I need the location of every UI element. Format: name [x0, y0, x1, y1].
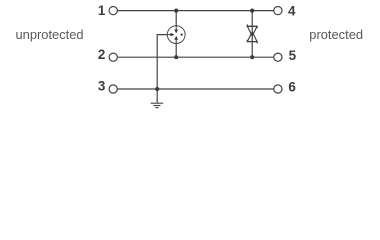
wire TVS vertical [251, 11, 253, 58]
wire row 1 (pin1 to pin4) [117, 10, 273, 12]
svg-text:1: 1 [98, 3, 106, 18]
wire side electrode to ground (L bend) [157, 35, 167, 103]
suppressor diode upper triangle [247, 26, 257, 36]
gas discharge tube body [167, 26, 185, 44]
junction row1/TVS [250, 9, 254, 13]
suppressor diode top zener bar [247, 24, 257, 28]
svg-text:4: 4 [288, 3, 296, 18]
junction row1/GDT [174, 9, 178, 13]
junction row2/TVS [250, 55, 254, 59]
wire GDT top (row1 to arrester) [175, 11, 177, 26]
suppressor diode bottom zener bar [247, 40, 257, 44]
svg-text:6: 6 [288, 80, 295, 95]
wire row 3 (pin3 to pin6) [117, 88, 273, 90]
junction row3/ground wire [155, 87, 159, 91]
wire GDT bottom (arrester to row2) [175, 43, 177, 57]
terminal circle pin 3 [109, 85, 117, 93]
svg-text:2: 2 [98, 47, 105, 62]
suppressor diode lower triangle [247, 32, 257, 42]
wire row 2 (pin2 to pin5) [117, 56, 273, 58]
svg-text:unprotected: unprotected [16, 27, 84, 42]
junction row2/GDT [174, 55, 178, 59]
terminal circle pin 1 [109, 7, 117, 15]
ground symbol [151, 103, 164, 107]
terminal circle pin 6 [274, 85, 282, 93]
GDT bottom electrode arrow [175, 40, 177, 44]
terminal circle pin 2 [109, 53, 117, 61]
terminal circle pin 5 [274, 53, 282, 61]
svg-text:3: 3 [98, 79, 105, 94]
svg-text:protected: protected [309, 27, 363, 42]
svg-text:5: 5 [289, 48, 297, 63]
GDT gas dot [181, 34, 183, 36]
GDT side electrode arrow [167, 34, 170, 36]
GDT top electrode arrow [175, 26, 177, 30]
terminal circle pin 4 [274, 7, 282, 15]
